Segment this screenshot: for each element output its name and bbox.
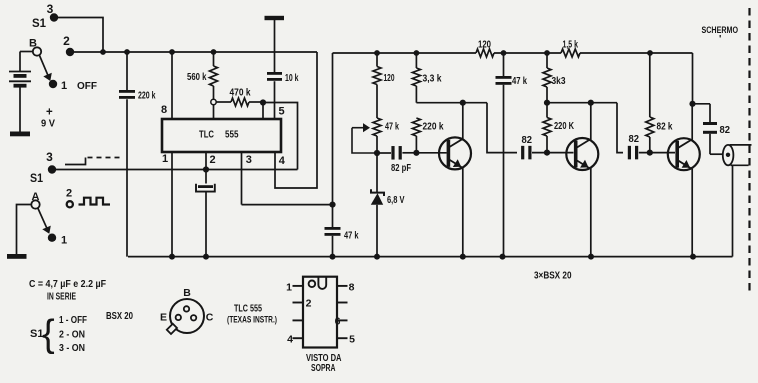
IC package top view <box>303 277 337 348</box>
svg-text:120: 120 <box>478 40 491 51</box>
squarewave annotation <box>79 198 111 205</box>
switch S1 (A) wiper arrow <box>38 208 51 234</box>
label 470k <box>230 88 251 99</box>
label 220K amp <box>554 121 575 132</box>
resistor 560k <box>210 52 218 99</box>
svg-text:': ' <box>719 34 721 45</box>
switch S1 label <box>32 18 47 30</box>
wire ground rail <box>128 256 733 258</box>
svg-text:2: 2 <box>63 34 70 48</box>
transistor Q2 BSX20 <box>566 138 598 170</box>
svg-text:1: 1 <box>61 235 67 247</box>
wire Q2 base lead <box>532 152 574 154</box>
svg-text:220 k: 220 k <box>138 91 156 102</box>
transistor Q1 BSX20 <box>439 137 471 169</box>
wire rail end / Q3 collector <box>691 53 693 140</box>
junction rail x213 <box>211 49 217 55</box>
wire Q1 collector <box>462 103 464 139</box>
svg-text:2: 2 <box>66 188 72 200</box>
label 10k <box>285 73 299 84</box>
label TLC 555 <box>199 129 239 141</box>
junction T2 collector <box>588 100 594 106</box>
svg-text:{: { <box>42 313 55 355</box>
svg-text:560 k: 560 k <box>187 72 207 83</box>
switch S1 (A) contact 1 <box>48 234 67 247</box>
svg-text:3,3 k: 3,3 k <box>423 74 442 85</box>
wire node to trigger <box>263 103 298 170</box>
junction Q3 collector <box>689 101 695 107</box>
wire T2 collector node <box>547 103 623 153</box>
junction pin3/osc <box>329 202 335 208</box>
label B <box>29 38 37 50</box>
label pin4 <box>279 155 286 167</box>
switch S1 (A) label <box>30 173 44 185</box>
svg-text:6: 6 <box>335 316 341 328</box>
svg-text:220 K: 220 K <box>554 121 575 132</box>
op IC TLC555 box U1 <box>162 119 281 152</box>
wire contact3 to rail <box>54 18 103 53</box>
svg-text:82: 82 <box>720 125 731 136</box>
label 220k <box>138 91 156 102</box>
junction ground rail x462.8 <box>460 254 466 260</box>
junction rail x103 <box>100 49 106 55</box>
switch S1 contact 3 <box>47 2 59 22</box>
capacitor C (pin2) <box>196 184 215 257</box>
label SCHERMO <box>702 25 739 45</box>
label pin5 <box>278 106 284 118</box>
svg-text:B: B <box>29 38 37 50</box>
svg-text:470 k: 470 k <box>230 88 251 99</box>
potentiometer 47k <box>373 118 381 153</box>
svg-text:6,8 V: 6,8 V <box>387 195 405 206</box>
switch S1 (B) pole circle <box>33 47 41 55</box>
svg-text:1: 1 <box>162 153 168 165</box>
capacitor 82 (output) <box>693 104 723 154</box>
label 3,3k <box>423 74 442 85</box>
label 82k <box>657 122 673 133</box>
switch S1 wiper arrow <box>39 55 52 81</box>
label 47k decoupling <box>512 76 527 87</box>
svg-text:TLC: TLC <box>199 129 214 141</box>
svg-text:1: 1 <box>286 282 292 294</box>
pinout pin C <box>191 312 214 324</box>
wire Q3 emitter <box>691 169 693 257</box>
junction rail2 x416.4 <box>414 50 420 56</box>
label 560k <box>187 72 207 83</box>
pinout pin B <box>183 287 191 312</box>
svg-text:120: 120 <box>384 73 395 84</box>
wire pin7 <box>213 105 215 119</box>
wire pin2 <box>205 152 207 184</box>
svg-text:82: 82 <box>522 135 533 146</box>
note IN SERIE <box>47 292 76 303</box>
node circle 560k/470k <box>211 99 216 104</box>
resistor 3,3k <box>412 53 420 103</box>
svg-text:2: 2 <box>210 154 216 166</box>
IC package right pin stubs <box>337 286 348 338</box>
label zener 6,8V <box>387 195 405 206</box>
label pin2 <box>210 154 216 166</box>
junction ground rail x332.5 <box>330 254 336 260</box>
svg-text:3: 3 <box>47 2 54 16</box>
wire pin8 <box>161 52 172 119</box>
svg-text:555: 555 <box>225 129 239 141</box>
junction ground rail x377 <box>374 254 380 260</box>
label 82pF <box>391 163 411 174</box>
IC package notch <box>318 277 326 289</box>
svg-text:9 V: 9 V <box>41 118 55 130</box>
svg-text:C = 4,7 µF e 2.2 µF: C = 4,7 µF e 2.2 µF <box>29 279 106 290</box>
svg-text:2: 2 <box>306 298 312 310</box>
wire trigger line <box>52 169 298 171</box>
junction rail x172 <box>169 49 175 55</box>
svg-text:4: 4 <box>287 334 293 346</box>
IC package left pin stubs <box>293 286 304 338</box>
wire pin4 to V+ <box>275 52 317 188</box>
svg-text:S1: S1 <box>30 173 44 185</box>
junction rail2 x503.5 <box>501 50 507 56</box>
wire pole A to ground <box>17 205 32 255</box>
transistor Q3 BSX20 <box>668 138 700 170</box>
label A <box>32 191 40 203</box>
wire V+ rail 2 segment c <box>580 52 693 54</box>
IC package pin1 dot <box>309 281 316 288</box>
junction T1 collector <box>460 100 466 106</box>
svg-text:BSX 20: BSX 20 <box>106 310 133 322</box>
wire V+ rail 2 segment a <box>333 52 477 54</box>
svg-text:E: E <box>160 312 167 324</box>
switch S1 contact 2 <box>63 34 74 56</box>
svg-text:2 - ON: 2 - ON <box>59 330 85 341</box>
resistor 120 (vertical) <box>373 53 381 118</box>
resistor 220k (osc) <box>412 118 420 153</box>
label 3k3 <box>552 76 566 87</box>
svg-text:IN SERIE: IN SERIE <box>47 292 76 303</box>
output jack J1 <box>723 145 752 257</box>
label BSX 20 <box>106 310 133 322</box>
wire V+ rail (left block) <box>70 51 317 53</box>
junction ground rail x693 <box>690 254 696 260</box>
pot wiper arrow <box>352 123 377 153</box>
junction rail2 x650 <box>647 50 653 56</box>
resistor 470k <box>216 98 263 106</box>
label 47k osc <box>344 231 359 242</box>
pinout pin E <box>160 312 181 324</box>
svg-text:1: 1 <box>61 80 67 92</box>
wire osc supply from pin3 <box>332 53 334 227</box>
junction 3k3/220K <box>544 100 550 106</box>
svg-text:82: 82 <box>629 134 640 145</box>
ground (battery) <box>10 132 30 137</box>
capacitor 220k <box>119 52 135 257</box>
label TLC 555 (TEXAS INSTR.) <box>227 304 277 326</box>
svg-text:(TEXAS INSTR.): (TEXAS INSTR.) <box>227 315 277 326</box>
zener diode 6,8V <box>371 153 384 256</box>
wire pin6 <box>262 103 264 120</box>
ground (switch A) <box>7 254 27 259</box>
svg-text:3: 3 <box>246 154 252 166</box>
wire pin1 to ground rail <box>162 152 172 257</box>
svg-text:TLC 555: TLC 555 <box>234 304 262 315</box>
svg-text:47 k: 47 k <box>344 231 359 242</box>
junction ground rail x172 <box>169 254 175 260</box>
svg-text:3×BSX 20: 3×BSX 20 <box>534 271 572 282</box>
junction base T3 <box>647 150 653 156</box>
junction pin2/trigger <box>203 166 209 172</box>
svg-text:3: 3 <box>46 150 53 164</box>
IC pin labels right <box>335 282 355 346</box>
label 3xBSX20 <box>534 271 572 282</box>
resistor 120 (series rail) <box>476 40 494 58</box>
svg-text:220 k: 220 k <box>423 122 444 133</box>
shield dashed line <box>748 8 750 293</box>
resistor 82k <box>646 53 654 153</box>
note C values <box>29 279 106 290</box>
wire Q1 emitter <box>462 168 464 257</box>
svg-text:82 k: 82 k <box>657 122 673 133</box>
capacitor 10k <box>267 20 282 119</box>
resistor 3k3 <box>543 53 551 103</box>
capacitor 47k (osc left) <box>325 227 341 257</box>
transistor pinout circle <box>167 299 204 334</box>
switch S1 contact 1 OFF <box>49 80 98 92</box>
svg-text:82 pF: 82 pF <box>391 163 411 174</box>
junction ground rail x591 <box>588 254 594 260</box>
svg-text:5: 5 <box>349 334 355 346</box>
junction rail2 x377 <box>374 50 380 56</box>
junction rail x127 <box>124 49 130 55</box>
resistor 1,5k (series rail) <box>561 40 580 58</box>
svg-text:3k3: 3k3 <box>552 76 566 87</box>
wire Q3 base lead <box>639 152 675 154</box>
junction pot/base <box>374 150 380 156</box>
svg-text:1,5 k: 1,5 k <box>563 40 579 51</box>
IC pin labels left <box>286 282 312 346</box>
svg-text:SOPRA: SOPRA <box>311 362 336 374</box>
wire Q2 collector <box>590 103 592 140</box>
svg-text:OFF: OFF <box>77 80 98 92</box>
capacitor 82pF <box>380 146 415 160</box>
wire T1 base lead <box>416 152 446 154</box>
capacitor 82 (coupling 2) <box>628 134 640 159</box>
svg-text:1 - OFF: 1 - OFF <box>59 315 87 326</box>
shield bar (top) <box>265 16 285 20</box>
svg-text:8: 8 <box>161 104 167 116</box>
svg-text:47 k: 47 k <box>512 76 527 87</box>
battery BAT1 9V plates <box>9 72 31 86</box>
battery plus label +9V <box>41 107 55 130</box>
svg-text:10 k: 10 k <box>285 73 299 84</box>
junction ground rail x206 <box>203 254 209 260</box>
wire Q2 emitter <box>590 168 592 256</box>
wire T1 collector node <box>416 103 517 153</box>
junction rail2 x547 <box>544 50 550 56</box>
switch S1 (A) contact 3 <box>46 150 56 174</box>
svg-text:4: 4 <box>279 155 286 167</box>
switch S1 (A) pole circle <box>31 200 39 208</box>
label 82 output <box>720 125 731 136</box>
note S1 positions <box>30 313 87 355</box>
label 47k pot <box>385 122 399 133</box>
junction base T1 <box>413 150 419 156</box>
label 120 vertical <box>384 73 395 84</box>
wire V+ rail 2 segment b <box>494 52 561 54</box>
capacitor 82 (coupling 1) <box>521 135 532 159</box>
junction ground rail x502.5 <box>500 254 506 260</box>
resistor 220K (amp) <box>543 103 551 153</box>
battery BAT1 9V wires <box>20 52 33 132</box>
wire pin3 output <box>242 152 333 205</box>
junction 470k/pin6 <box>260 99 266 105</box>
svg-text:3 - ON: 3 - ON <box>59 343 85 354</box>
svg-text:5: 5 <box>278 106 284 118</box>
label VISTO DA SOPRA <box>306 352 342 374</box>
svg-text:C: C <box>206 312 214 324</box>
waveform step annotation <box>65 158 122 165</box>
svg-text:S1: S1 <box>32 18 47 30</box>
svg-text:47 k: 47 k <box>385 122 399 133</box>
capacitor 47k (decoupling) <box>496 53 512 257</box>
label 220k osc <box>423 122 444 133</box>
switch S1 (A) contact 2 <box>66 188 73 208</box>
svg-text:B: B <box>183 287 191 299</box>
label pin3 <box>246 154 252 166</box>
svg-text:8: 8 <box>349 282 355 294</box>
junction base T2 <box>544 150 550 156</box>
